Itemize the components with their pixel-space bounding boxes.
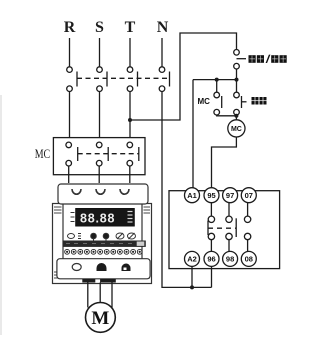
breaker pole R (67, 67, 77, 92)
wire R to breaker (69, 38, 71, 67)
wire rung down to A1 (192, 80, 194, 189)
contact MC aux NO (214, 80, 222, 115)
wire rung horizontal (193, 79, 237, 81)
wire MC to EOCR 1 (68, 166, 70, 183)
svg-text:98: 98 (226, 255, 234, 264)
svg-text:R: R (64, 19, 76, 36)
wire T tap to stop button (130, 33, 237, 120)
terminal 98 (223, 251, 238, 266)
wire MC to EOCR 3 (129, 166, 131, 183)
relay contact 07-08 (244, 203, 250, 252)
wire A2 to N (191, 266, 193, 287)
breaker linkage dashed (77, 77, 170, 79)
wire R breaker to MC (69, 92, 71, 138)
svg-text:N: N (157, 19, 169, 36)
wire stop to rung (236, 69, 238, 92)
contactor pole 2 (96, 142, 108, 166)
svg-text:96: 96 (207, 255, 215, 264)
terminal A1 (185, 188, 200, 203)
flange hatches (54, 207, 150, 278)
wire 96 to N (211, 266, 213, 287)
relay EOCR contact block (169, 191, 280, 269)
wire T to breaker (129, 38, 131, 67)
top terminal block (58, 184, 148, 204)
svg-text:A2: A2 (187, 255, 197, 264)
wire branches merge (217, 114, 237, 117)
wire EOCR to motor 3 (111, 283, 113, 308)
contactor linkage dashed (78, 153, 139, 155)
EOCR label strip (63, 241, 146, 247)
EOCR device body (53, 184, 152, 284)
breaker pole T (127, 67, 137, 92)
wire MC to EOCR 2 (98, 166, 100, 183)
relay contact 95-96 (208, 203, 215, 252)
svg-text:88.88: 88.88 (80, 212, 115, 226)
wire S breaker to MC (99, 92, 101, 138)
breaker pole N (159, 67, 169, 92)
motor M (86, 303, 116, 333)
node junction MC branch (215, 78, 219, 82)
pushbutton start NO (234, 92, 247, 115)
node junction stop rung (235, 78, 239, 82)
relay linkage dashed (208, 227, 236, 229)
svg-text:T: T (125, 19, 136, 36)
contactor pole 1 (66, 142, 78, 166)
svg-text:07: 07 (245, 191, 253, 200)
contactor MC box (53, 138, 145, 175)
terminal 08 (241, 251, 256, 266)
svg-text:MC: MC (198, 97, 211, 106)
svg-text:08: 08 (245, 255, 253, 264)
svg-text:95: 95 (207, 191, 215, 200)
svg-text:97: 97 (226, 191, 234, 200)
EOCR knobs row (68, 233, 136, 242)
svg-text:MC: MC (35, 146, 51, 161)
svg-text:M: M (91, 308, 109, 329)
wire N to breaker (161, 38, 163, 67)
EOCR rail tabs (82, 279, 115, 283)
terminal 95 (204, 188, 219, 203)
wire EOCR to motor 2 (99, 283, 101, 303)
node junction coil (234, 114, 238, 118)
wire T breaker to MC (129, 92, 131, 138)
pushbutton stop NC (234, 50, 246, 70)
node T tap junction (128, 118, 132, 122)
EOCR screw terminals (65, 249, 142, 254)
EOCR bottom terminal block (57, 259, 150, 279)
contactor pole 3 (127, 142, 139, 166)
terminal 96 (204, 251, 219, 266)
label stop/reset (249, 55, 287, 63)
breaker pole S (97, 67, 107, 92)
EOCR display (71, 208, 135, 226)
wire coil to 95 (212, 137, 237, 189)
terminal A2 (185, 251, 200, 266)
wire S to breaker (99, 38, 101, 67)
coil MC (228, 120, 245, 137)
svg-text:A1: A1 (187, 191, 197, 200)
wire N down to bottom (162, 92, 212, 288)
node junction A2 N (190, 285, 194, 289)
wire EOCR to motor 1 (87, 283, 89, 308)
svg-text:MC: MC (231, 126, 242, 133)
relay contact 97-98 (226, 203, 236, 252)
svg-text:S: S (95, 19, 104, 36)
terminal 97 (223, 188, 238, 203)
terminal 07 (241, 188, 256, 203)
label start (252, 97, 267, 105)
